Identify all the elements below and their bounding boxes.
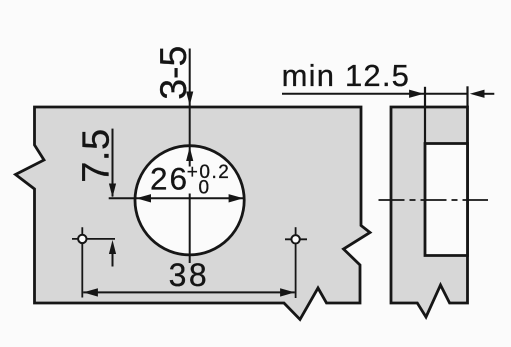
front panel (door) with break zigzags (16, 107, 371, 320)
arrow left at circle left (26) (136, 194, 151, 202)
arrow right (38) (280, 288, 295, 296)
extension line at cup depth (424, 87, 426, 144)
arrow right at circle right (26) (229, 194, 244, 202)
7.5 dimension line lower part (112, 252, 114, 267)
svg-text:7.5: 7.5 (75, 128, 117, 182)
dash-dot centerline of cup (side view) (379, 199, 489, 201)
svg-text:26: 26 (150, 161, 189, 197)
svg-text:min 12.5: min 12.5 (282, 58, 411, 93)
arrow up at circle top (3-5) (186, 147, 193, 161)
screw hole right crosshair (285, 238, 307, 240)
vertical centerline of cup hole / 3-5 dimension line (189, 49, 191, 167)
cup hole circle 26mm (135, 146, 244, 255)
7.5 dimension line upper part (112, 129, 114, 197)
arrow left (38) (83, 288, 98, 296)
screw hole right (291, 235, 299, 243)
arrow left outside (min 12.5) (470, 90, 485, 98)
screw hole left crosshair (72, 238, 115, 240)
horizontal centerline of cup hole / 26 dimension line (109, 197, 244, 199)
tail line of outside arrow (484, 93, 494, 95)
svg-text:38: 38 (169, 257, 210, 293)
38 dimension line (83, 291, 295, 293)
extension line at panel face (466, 86, 468, 107)
svg-text:0: 0 (199, 177, 210, 198)
min 12.5 dimension line (282, 93, 467, 95)
screw hole left (78, 235, 86, 243)
side panel (door edge view) with break zigzag (391, 107, 468, 317)
hinge cup notch in side panel (425, 144, 468, 256)
arrow right (min 12.5) (409, 90, 424, 98)
arrow up (7.5) (109, 240, 116, 254)
svg-text:3-5: 3-5 (152, 46, 194, 100)
arrow down (7.5) (109, 184, 116, 198)
arrow down at panel top edge (3-5) (186, 92, 193, 106)
